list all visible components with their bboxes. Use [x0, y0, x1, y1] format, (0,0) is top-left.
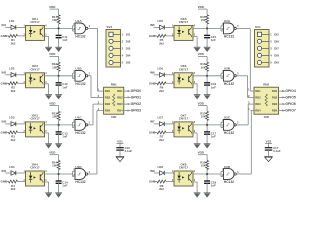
svg-text:RB2: RB2	[105, 96, 111, 100]
svg-text:10k: 10k	[201, 66, 206, 70]
svg-text:2k2: 2k2	[11, 187, 16, 191]
svg-text:VDD: VDD	[49, 5, 56, 9]
svg-text:HC132: HC132	[224, 131, 234, 135]
svg-text:1nF: 1nF	[62, 38, 67, 42]
svg-text:U1B: U1B	[75, 67, 82, 71]
svg-text:CNY17: CNY17	[30, 166, 40, 170]
svg-text:10k: 10k	[52, 164, 57, 168]
svg-text:HC132: HC132	[75, 82, 85, 86]
svg-text:GPIO4: GPIO4	[285, 89, 295, 93]
svg-text:VDD: VDD	[49, 150, 56, 154]
svg-text:CNY17: CNY17	[179, 117, 189, 121]
svg-text:2k2: 2k2	[159, 89, 164, 93]
svg-text:RB4: RB4	[105, 109, 111, 113]
svg-text:IN5: IN5	[150, 23, 155, 27]
svg-text:10k: 10k	[52, 66, 57, 70]
svg-text:RB3: RB3	[272, 102, 278, 106]
svg-text:DI2: DI2	[126, 39, 131, 43]
svg-text:IN2: IN2	[2, 71, 7, 75]
svg-text:SV1: SV1	[255, 25, 261, 29]
svg-text:RN2: RN2	[263, 83, 269, 87]
svg-text:1nF: 1nF	[211, 135, 216, 139]
svg-text:10k: 10k	[201, 164, 206, 168]
svg-text:2k2: 2k2	[159, 187, 164, 191]
svg-text:VS1: VS1	[117, 139, 123, 143]
svg-text:VDD: VDD	[198, 150, 205, 154]
svg-text:HC132: HC132	[75, 131, 85, 135]
svg-text:VDD: VDD	[49, 101, 56, 105]
svg-text:LD8: LD8	[158, 165, 164, 169]
svg-text:CNY17: CNY17	[179, 68, 189, 72]
svg-text:IN7: IN7	[150, 120, 155, 124]
svg-text:LD3: LD3	[9, 116, 15, 120]
svg-text:DI5: DI5	[126, 61, 131, 65]
svg-text:U2D: U2D	[224, 165, 231, 169]
svg-text:2k2: 2k2	[11, 89, 16, 93]
svg-text:RN1: RN1	[111, 83, 117, 87]
svg-text:1nF: 1nF	[62, 135, 67, 139]
svg-text:IN3: IN3	[2, 120, 7, 124]
svg-text:2k2: 2k2	[11, 41, 16, 45]
svg-text:IN1: IN1	[2, 23, 7, 27]
svg-text:HC132: HC132	[224, 180, 234, 184]
svg-text:CNY17: CNY17	[179, 20, 189, 24]
svg-text:DI8: DI8	[274, 54, 279, 58]
svg-text:RB3: RB3	[255, 102, 261, 106]
svg-text:RB3: RB3	[117, 102, 123, 106]
svg-text:1nF: 1nF	[62, 184, 67, 188]
svg-text:DI6: DI6	[274, 39, 279, 43]
svg-text:HC132: HC132	[224, 82, 234, 86]
svg-text:RB2: RB2	[117, 96, 123, 100]
svg-text:DI7: DI7	[274, 47, 279, 51]
svg-text:RB3: RB3	[105, 102, 111, 106]
svg-text:GPIO6: GPIO6	[285, 102, 295, 106]
svg-text:0.1uF: 0.1uF	[125, 149, 133, 153]
svg-text:RB1: RB1	[105, 89, 111, 93]
svg-text:VDD: VDD	[198, 52, 205, 56]
svg-text:LD6: LD6	[158, 67, 164, 71]
svg-text:HC132: HC132	[75, 180, 85, 184]
svg-text:0.1uF: 0.1uF	[273, 149, 281, 153]
svg-text:U1A: U1A	[75, 19, 82, 23]
svg-text:GPIO5: GPIO5	[285, 96, 295, 100]
svg-text:RB2: RB2	[255, 96, 261, 100]
svg-text:GPIO3: GPIO3	[131, 109, 141, 113]
svg-text:LD5: LD5	[158, 19, 164, 23]
svg-text:U2B: U2B	[224, 67, 231, 71]
svg-text:DI3: DI3	[126, 47, 131, 51]
svg-text:1nF: 1nF	[62, 85, 67, 89]
svg-text:GPIO2: GPIO2	[131, 102, 141, 106]
svg-text:HC132: HC132	[224, 35, 234, 39]
svg-text:CNY17: CNY17	[30, 20, 40, 24]
svg-text:10R: 10R	[263, 115, 269, 119]
svg-text:1nF: 1nF	[211, 38, 216, 42]
svg-text:CNY17: CNY17	[179, 166, 189, 170]
svg-text:RB1: RB1	[272, 89, 278, 93]
svg-text:VDD: VDD	[49, 52, 56, 56]
svg-text:DI1: DI1	[126, 32, 131, 36]
svg-text:2k2: 2k2	[159, 41, 164, 45]
svg-text:VDD: VDD	[198, 101, 205, 105]
svg-text:U1D: U1D	[75, 165, 82, 169]
svg-text:U2C: U2C	[224, 116, 231, 120]
svg-text:10R: 10R	[111, 115, 117, 119]
svg-text:HC132: HC132	[75, 35, 85, 39]
svg-text:10k: 10k	[201, 18, 206, 22]
svg-text:IN4: IN4	[2, 169, 7, 173]
svg-text:10k: 10k	[52, 18, 57, 22]
svg-text:VDD: VDD	[198, 5, 205, 9]
svg-text:RB4: RB4	[117, 109, 123, 113]
svg-text:1nF: 1nF	[211, 184, 216, 188]
svg-text:SV4: SV4	[107, 25, 113, 29]
svg-text:2k2: 2k2	[11, 138, 16, 142]
svg-text:CNY17: CNY17	[30, 117, 40, 121]
svg-text:GPIO7: GPIO7	[285, 109, 295, 113]
svg-text:10k: 10k	[201, 115, 206, 119]
svg-text:DI5: DI5	[274, 32, 279, 36]
svg-text:IN8: IN8	[150, 169, 155, 173]
svg-text:DI4: DI4	[126, 54, 131, 58]
svg-text:IN6: IN6	[150, 71, 155, 75]
svg-text:RB1: RB1	[117, 89, 123, 93]
svg-text:VS2: VS2	[266, 139, 272, 143]
svg-text:GPIO0: GPIO0	[131, 89, 141, 93]
svg-text:LD7: LD7	[158, 116, 164, 120]
svg-text:GPIO1: GPIO1	[131, 96, 141, 100]
svg-text:LD1: LD1	[9, 19, 15, 23]
svg-text:U2A: U2A	[224, 19, 231, 23]
svg-text:CNY17: CNY17	[30, 68, 40, 72]
svg-text:LD4: LD4	[9, 165, 15, 169]
svg-text:DI9: DI9	[274, 61, 279, 65]
svg-text:RB4: RB4	[272, 109, 278, 113]
svg-text:U1C: U1C	[75, 116, 82, 120]
svg-text:2k2: 2k2	[159, 138, 164, 142]
svg-text:1nF: 1nF	[211, 85, 216, 89]
svg-text:RB1: RB1	[255, 89, 261, 93]
svg-text:LD2: LD2	[9, 67, 15, 71]
svg-text:10k: 10k	[52, 115, 57, 119]
svg-text:RB4: RB4	[255, 109, 261, 113]
svg-text:RB2: RB2	[272, 96, 278, 100]
